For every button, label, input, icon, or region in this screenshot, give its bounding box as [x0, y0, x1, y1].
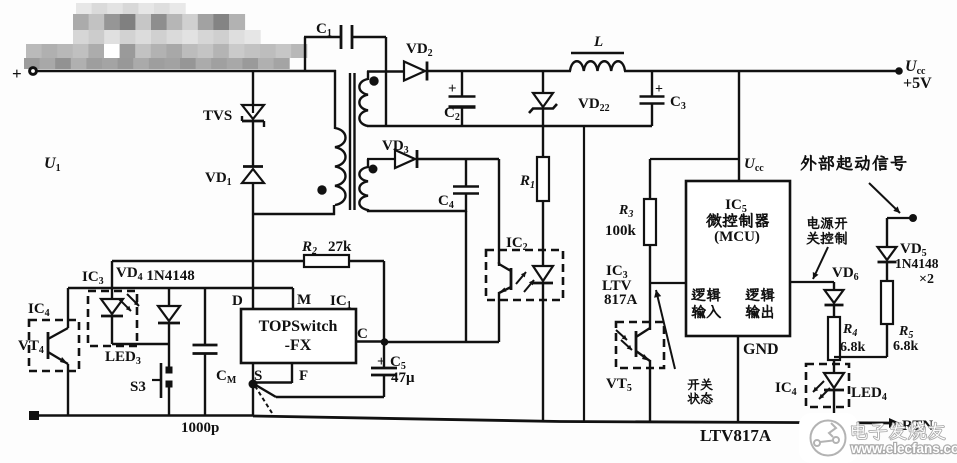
node secondary2 dot [369, 165, 378, 174]
wire ext terminal [887, 218, 913, 248]
node R3-VT5 junction arrow 开关状态 [654, 290, 675, 369]
svg-text:VD22: VD22 [578, 96, 610, 114]
resistor R2 [301, 239, 352, 267]
wire left top line [68, 287, 293, 289]
transformer primary winding [335, 128, 346, 205]
wire VT5 node to MCU [650, 282, 686, 284]
svg-text:IC4: IC4 [775, 380, 797, 398]
label LED3 [105, 349, 141, 367]
optocoupler IC4 VT4 [48, 288, 68, 415]
svg-text:R4: R4 [842, 322, 857, 339]
wire VD5 to R5 [886, 262, 888, 282]
svg-text:LTV817A: LTV817A [700, 426, 772, 445]
svg-text:U1: U1 [44, 155, 61, 174]
wire primary bottom lead [253, 205, 335, 215]
wire C5 bottom to S [254, 384, 384, 397]
svg-text:IC4: IC4 [28, 301, 50, 319]
arrow 电源开关控制 [813, 247, 828, 279]
svg-text:27k: 27k [328, 239, 352, 255]
optocoupler IC3 LED box [88, 291, 137, 346]
transformer secondary winding 2 [359, 159, 368, 212]
capacitor CM [193, 288, 237, 415]
diode VD3 [382, 138, 417, 168]
diode VD2 [404, 41, 433, 81]
wire bias return drop [465, 211, 467, 343]
wire top rail [36, 70, 336, 73]
wire LED3 top to R2 line [112, 260, 304, 262]
label 开关状态 [688, 378, 713, 404]
wire R3 to VT5 [649, 245, 651, 330]
inductor L [570, 34, 625, 71]
svg-text:6.8k: 6.8k [893, 339, 919, 354]
microcontroller IC5 box [686, 181, 790, 336]
svg-text:D: D [232, 293, 243, 309]
wire VD1-D chain [252, 183, 254, 309]
resistor R3 [605, 199, 656, 245]
svg-text:VT4: VT4 [18, 338, 44, 356]
svg-text:×2: ×2 [919, 272, 934, 287]
wire R2 to C node [349, 261, 384, 342]
optocoupler IC4 LED box [775, 364, 849, 407]
wire sec1 to VD2 [367, 70, 404, 72]
capacitor C4 [438, 187, 479, 212]
terminal Ucc +5V [895, 58, 932, 92]
resistor R5 [881, 281, 919, 354]
pin S [253, 363, 262, 384]
optocoupler IC2 LED [533, 266, 553, 422]
capacitor C3 [640, 82, 686, 112]
wire VD22-R1 [542, 108, 544, 158]
wire S to left rail [252, 384, 254, 416]
wire C3 bottom stem [651, 103, 653, 126]
wire C2 top stem [461, 71, 463, 96]
wire S dashed drop [255, 386, 272, 413]
terminal external start [909, 214, 917, 222]
optocoupler IC4 LED4 [824, 373, 844, 423]
wire primary top lead [334, 70, 336, 129]
wire MCU output [790, 282, 834, 291]
optocoupler IC3 VT5 box [616, 322, 664, 368]
svg-text:100k: 100k [605, 223, 637, 239]
svg-text:IC1: IC1 [330, 293, 352, 311]
terminal RTN [889, 418, 933, 434]
svg-text:VD2: VD2 [406, 41, 433, 59]
optocoupler IC3 LED3 [101, 261, 169, 344]
wire TVS-VD1 [252, 121, 254, 166]
wire C4 top stem [465, 159, 467, 186]
svg-text:+: + [377, 354, 386, 370]
label VT5 [606, 376, 632, 394]
wire +5V rail left [428, 70, 571, 73]
wire return-to-ground drop [583, 126, 585, 422]
watermark elecfans logo [799, 413, 957, 463]
wire C2 bottom stem [461, 107, 463, 126]
svg-text:www.elecfans.com: www.elecfans.com [850, 441, 957, 456]
label U1 [44, 155, 61, 174]
wire C node to IC2 emitter [384, 341, 499, 343]
pin M [293, 288, 311, 309]
svg-text:CM: CM [216, 368, 237, 386]
svg-text:VD1: VD1 [205, 170, 232, 188]
svg-text:S3: S3 [130, 379, 146, 395]
svg-text:+: + [655, 82, 663, 97]
label IC3 left [82, 269, 104, 287]
label LTV817A [700, 426, 772, 445]
svg-text:+: + [12, 64, 22, 83]
switch S3 [130, 363, 173, 415]
terminal left bottom [29, 411, 39, 420]
svg-text:C3: C3 [670, 94, 686, 112]
wire C1 branch right [353, 37, 386, 126]
node secondary1 dot [369, 76, 378, 85]
diode VD6 [825, 265, 859, 318]
label 1000p [181, 420, 219, 436]
label 外部起动信号 [801, 155, 906, 171]
svg-text:R2: R2 [301, 239, 317, 257]
wire R4 to LED4 [833, 360, 835, 374]
diode VD1 [205, 167, 264, 189]
op-amp U1 TOPSwitch-FX IC1 box [241, 293, 356, 363]
wire TVS top [252, 71, 254, 106]
svg-text:LED3: LED3 [105, 349, 141, 367]
optocoupler IC3 VT5 light arrows [616, 330, 632, 350]
wire +5V rail right [624, 70, 899, 73]
label IC3 LTV 817A [602, 263, 638, 308]
wire VD3 out [418, 159, 499, 264]
transformer core [350, 73, 355, 210]
capacitor C1 [316, 21, 352, 49]
svg-text:1N4148: 1N4148 [895, 256, 939, 271]
arrow 外部起动信号 [869, 183, 900, 213]
label Ucc mid [744, 156, 764, 174]
svg-text:VT5: VT5 [606, 376, 632, 394]
zener diode VD22 [529, 93, 610, 114]
svg-text:C1: C1 [316, 21, 332, 39]
wire R5 to LED4 node [834, 324, 887, 357]
input + terminal [12, 64, 36, 83]
svg-text:6.8k: 6.8k [840, 340, 866, 355]
svg-text:Ucc: Ucc [744, 156, 764, 174]
svg-text:M: M [297, 292, 311, 308]
capacitor C2 [444, 81, 476, 123]
svg-text:GND: GND [743, 341, 779, 358]
optocoupler IC3 LED3 arrows [119, 294, 139, 311]
wire C1 branch left [304, 37, 340, 72]
label VD4 1N4148 [116, 265, 195, 284]
resistor R4 [828, 317, 866, 360]
pin F [253, 363, 308, 384]
wire left bottom rail [34, 414, 253, 417]
svg-text:47μ: 47μ [391, 370, 415, 386]
node C junction [381, 338, 389, 346]
node primary dot [317, 185, 326, 194]
svg-text:-FX: -FX [285, 337, 312, 354]
svg-text:R3: R3 [618, 203, 633, 220]
pin GND [738, 336, 779, 423]
wire bottom rail [253, 416, 897, 423]
svg-text:+5V: +5V [903, 75, 932, 92]
diode VD5 [878, 241, 939, 287]
svg-text:R1: R1 [519, 173, 535, 191]
svg-text:TVS: TVS [203, 108, 232, 124]
svg-text:TOPSwitch: TOPSwitch [259, 318, 338, 335]
node S junction [249, 380, 258, 389]
optocoupler IC4 LED4 arrows [813, 381, 830, 399]
svg-text:IC3: IC3 [82, 269, 104, 287]
wire sec2 bottom [367, 210, 466, 212]
censored watermark mosaic [24, 3, 307, 69]
wire C4 bottom stem [465, 193, 467, 212]
svg-text:817A: 817A [604, 292, 638, 308]
pin D [232, 293, 243, 309]
resistor R1 [519, 157, 549, 201]
optocoupler IC2 light arrows [516, 272, 534, 292]
transformer secondary winding 1 [359, 71, 368, 126]
wire sec2 to VD3 [367, 158, 396, 160]
svg-text:L: L [593, 34, 603, 50]
svg-text:VD4 1N4148: VD4 1N4148 [116, 265, 195, 284]
capacitor C5 [371, 342, 415, 397]
wire VD22 top stem [542, 71, 544, 94]
wire C3 top stem [651, 71, 653, 96]
svg-text:C: C [357, 326, 368, 342]
wire R3 branch [650, 159, 739, 200]
optocoupler IC3 VT5 [636, 328, 650, 422]
diode VD4 [158, 288, 180, 371]
svg-text:1000p: 1000p [181, 420, 219, 436]
optocoupler IC2 box [486, 235, 563, 300]
wire C pin [356, 326, 384, 342]
wire R1-IC2LED [542, 201, 544, 267]
svg-text:(MCU): (MCU) [714, 229, 760, 245]
TVS transient suppressor [203, 105, 264, 127]
svg-text:LED4: LED4 [851, 385, 887, 403]
label LED4 [851, 385, 887, 403]
svg-text:C4: C4 [438, 193, 454, 211]
wire output return rail [367, 125, 652, 127]
svg-text:+: + [448, 81, 457, 97]
svg-text:F: F [299, 368, 308, 384]
svg-text:VD6: VD6 [832, 265, 859, 283]
label 电源开关控制 [807, 217, 847, 245]
optocoupler IC2 phototransistor [499, 262, 511, 342]
wire Ucc drop [738, 71, 740, 181]
optocoupler IC4 phototransistor box [18, 301, 79, 371]
